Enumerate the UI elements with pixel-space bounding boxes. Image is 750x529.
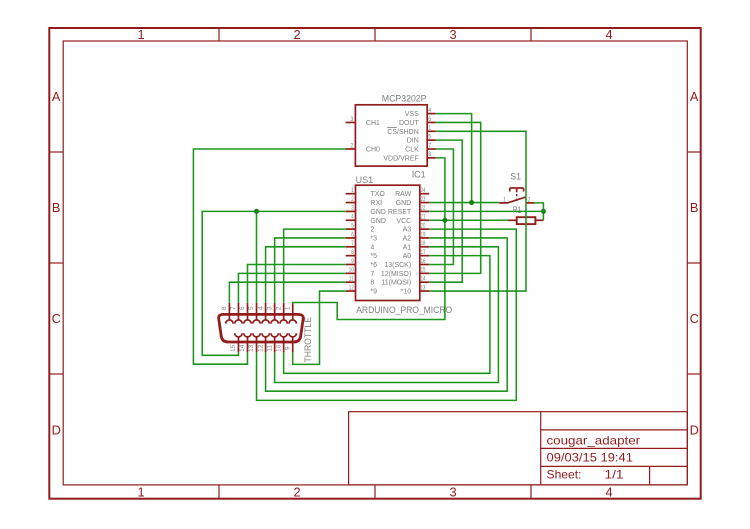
svg-text:5: 5 xyxy=(351,222,354,229)
svg-text:12(MISO): 12(MISO) xyxy=(381,271,411,278)
svg-text:21: 21 xyxy=(421,214,426,221)
svg-text:ARDUINO_PRO_MICRO: ARDUINO_PRO_MICRO xyxy=(356,305,452,315)
svg-text:A3: A3 xyxy=(403,227,412,234)
svg-text:IC1: IC1 xyxy=(412,170,426,180)
svg-text:8: 8 xyxy=(370,280,374,287)
svg-text:*10: *10 xyxy=(401,289,412,296)
svg-text:C: C xyxy=(52,311,61,326)
svg-text:2: 2 xyxy=(528,196,531,203)
svg-text:19: 19 xyxy=(421,231,426,238)
svg-text:09/03/15 19:41: 09/03/15 19:41 xyxy=(547,450,634,464)
svg-text:A2: A2 xyxy=(403,235,412,242)
svg-text:2: 2 xyxy=(293,485,300,500)
svg-text:14: 14 xyxy=(421,276,426,283)
svg-text:CS/SHDN: CS/SHDN xyxy=(387,129,419,136)
svg-text:4: 4 xyxy=(370,244,374,251)
svg-text:*3: *3 xyxy=(370,235,377,242)
svg-text:RXI: RXI xyxy=(370,200,382,207)
svg-text:cougar_adapter: cougar_adapter xyxy=(547,433,641,447)
svg-text:11: 11 xyxy=(349,276,354,283)
svg-text:11(MOSI): 11(MOSI) xyxy=(381,280,411,287)
svg-text:24: 24 xyxy=(421,187,426,194)
svg-text:16: 16 xyxy=(421,258,426,265)
svg-text:A1: A1 xyxy=(403,244,412,251)
svg-text:13(SCK): 13(SCK) xyxy=(384,262,411,269)
svg-text:*6: *6 xyxy=(370,262,377,269)
svg-text:4: 4 xyxy=(257,306,264,310)
svg-text:VSS: VSS xyxy=(405,111,419,118)
svg-text:9: 9 xyxy=(351,258,354,265)
svg-text:10: 10 xyxy=(349,267,354,274)
svg-text:13: 13 xyxy=(248,344,255,352)
svg-text:DOUT: DOUT xyxy=(399,120,420,127)
svg-text:14: 14 xyxy=(239,344,246,352)
svg-text:1/1: 1/1 xyxy=(605,468,624,482)
svg-text:1: 1 xyxy=(284,306,291,310)
svg-text:8: 8 xyxy=(221,306,228,310)
svg-text:VCC: VCC xyxy=(396,218,411,225)
svg-text:4: 4 xyxy=(605,485,612,500)
svg-text:A0: A0 xyxy=(403,253,412,260)
svg-text:US1: US1 xyxy=(356,175,374,185)
svg-text:S1: S1 xyxy=(510,172,521,182)
svg-text:*5: *5 xyxy=(370,253,377,260)
svg-text:D: D xyxy=(690,422,699,437)
svg-text:9: 9 xyxy=(284,346,291,350)
svg-text:CH0: CH0 xyxy=(366,147,380,154)
svg-text:6: 6 xyxy=(351,231,354,238)
svg-text:TXO: TXO xyxy=(370,191,385,198)
svg-text:10: 10 xyxy=(275,344,282,352)
svg-text:7: 7 xyxy=(351,240,354,247)
svg-text:1: 1 xyxy=(137,27,144,42)
svg-text:2: 2 xyxy=(370,227,374,234)
svg-text:7: 7 xyxy=(428,142,431,149)
svg-text:B: B xyxy=(690,200,699,215)
svg-text:THROTTLE: THROTTLE xyxy=(303,317,313,363)
svg-text:4: 4 xyxy=(605,27,612,42)
svg-text:7: 7 xyxy=(230,306,237,310)
svg-text:5: 5 xyxy=(248,306,255,310)
svg-text:B: B xyxy=(52,200,61,215)
svg-text:22: 22 xyxy=(421,205,426,212)
svg-text:CLK: CLK xyxy=(405,147,419,154)
svg-text:2: 2 xyxy=(351,196,354,203)
svg-text:20: 20 xyxy=(421,222,426,229)
svg-text:*9: *9 xyxy=(370,289,377,296)
svg-text:18: 18 xyxy=(421,240,426,247)
svg-text:C: C xyxy=(690,311,699,326)
svg-text:D: D xyxy=(52,422,61,437)
svg-text:1: 1 xyxy=(351,187,354,194)
svg-text:4: 4 xyxy=(351,214,354,221)
svg-text:8: 8 xyxy=(428,151,431,158)
svg-text:GND: GND xyxy=(370,209,386,216)
svg-text:1: 1 xyxy=(137,485,144,500)
svg-text:RAW: RAW xyxy=(395,191,411,198)
svg-text:3: 3 xyxy=(351,205,354,212)
svg-text:3: 3 xyxy=(266,306,273,310)
svg-text:R1: R1 xyxy=(513,205,522,215)
svg-text:2: 2 xyxy=(350,142,353,149)
svg-text:MCP3202P: MCP3202P xyxy=(382,94,427,104)
svg-text:CH1: CH1 xyxy=(366,120,380,127)
svg-text:12: 12 xyxy=(257,344,264,352)
svg-text:GND: GND xyxy=(396,200,412,207)
svg-text:2: 2 xyxy=(293,27,300,42)
svg-text:3: 3 xyxy=(449,485,456,500)
svg-text:12: 12 xyxy=(349,284,354,291)
svg-text:A: A xyxy=(690,89,699,104)
svg-text:5: 5 xyxy=(428,133,431,140)
svg-text:17: 17 xyxy=(421,249,426,256)
svg-text:RESET: RESET xyxy=(388,209,412,216)
svg-text:2: 2 xyxy=(275,306,282,310)
svg-text:6: 6 xyxy=(239,306,246,310)
svg-text:15: 15 xyxy=(421,267,426,274)
svg-text:8: 8 xyxy=(351,249,354,256)
svg-text:3: 3 xyxy=(449,27,456,42)
svg-text:15: 15 xyxy=(230,344,237,352)
svg-text:GND: GND xyxy=(370,218,386,225)
svg-text:DIN: DIN xyxy=(407,138,419,145)
svg-text:11: 11 xyxy=(266,345,273,352)
svg-text:A: A xyxy=(52,89,61,104)
svg-text:7: 7 xyxy=(370,271,374,278)
svg-text:23: 23 xyxy=(421,196,426,203)
svg-text:Sheet:: Sheet: xyxy=(547,468,582,482)
svg-text:13: 13 xyxy=(421,284,426,291)
svg-text:1: 1 xyxy=(428,125,431,132)
svg-text:3: 3 xyxy=(350,116,353,123)
svg-text:4: 4 xyxy=(428,107,431,114)
svg-text:6: 6 xyxy=(428,116,431,123)
svg-text:1: 1 xyxy=(503,196,506,203)
svg-text:VDD/VREF: VDD/VREF xyxy=(383,155,418,162)
